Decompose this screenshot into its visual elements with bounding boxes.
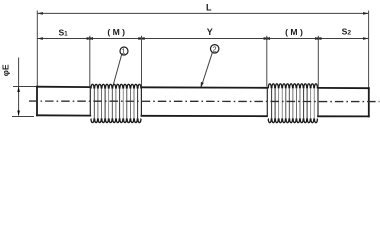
svg-text:φE: φE (0, 64, 10, 76)
extension line at bellows1 end (141, 36, 143, 87)
extension line right (x=368.6) (368, 11, 370, 89)
svg-text:Y: Y (207, 27, 213, 37)
extension line left (x=37) (36, 11, 38, 87)
pipe top line segment 2 (141, 86, 267, 89)
chained dimension line S1 (M) Y (M) S2 (37, 38, 368, 40)
centerline (29, 100, 380, 103)
pipe bottom line segment 2 (141, 115, 267, 117)
svg-text:( M ): ( M ) (107, 27, 125, 37)
pipe top line segment 3 (318, 87, 369, 89)
junction tick blobs (88, 37, 321, 40)
balloon 2 leader arrowhead (201, 82, 204, 88)
dimension line L (37, 12, 368, 14)
pipe right end edge (368, 88, 370, 116)
pipe top line segment 1 (37, 87, 369, 117)
bellows 2 end wall right (317, 88, 319, 117)
phi-E arrow bottom (17, 111, 20, 116)
svg-text:( M ): ( M ) (285, 27, 303, 37)
balloon 2 leader (201, 52, 212, 87)
svg-text:2: 2 (213, 46, 217, 53)
phi-E extension line top (13, 86, 37, 88)
pipe bottom line segment 3 (318, 115, 369, 117)
bellows 2 end wall left (266, 87, 268, 116)
pipe left end edge (36, 87, 38, 116)
phi-E dimension line vertical (18, 58, 20, 116)
phi-E extension line bottom (12, 116, 34, 118)
balloon 1 leader (113, 54, 121, 84)
phi-E arrow top (17, 87, 20, 92)
dimension arrowheads (37, 12, 368, 40)
balloon 2 circle (211, 45, 219, 53)
bellows 1 convolution lines (94, 88, 137, 118)
bellows 1 corrugation top wave (91, 84, 142, 88)
bellows 1 corrugation bottom wave (91, 119, 142, 123)
extension line at bellows2 end (317, 36, 319, 87)
bellows 2 corrugation top wave (268, 84, 318, 88)
pipe bottom line segment 1 (37, 114, 90, 116)
bellows 1 end wall left (89, 87, 91, 116)
bellows 1 end wall right (140, 87, 142, 116)
svg-text:L: L (206, 3, 212, 13)
extension line at bellows1 start (89, 36, 91, 86)
bellows 2 corrugation bottom wave (268, 119, 318, 123)
balloon 1 circle (120, 47, 128, 55)
svg-text:1: 1 (122, 49, 126, 56)
bellows 2 convolution lines (272, 88, 315, 118)
extension line at bellows2 start (266, 36, 268, 87)
